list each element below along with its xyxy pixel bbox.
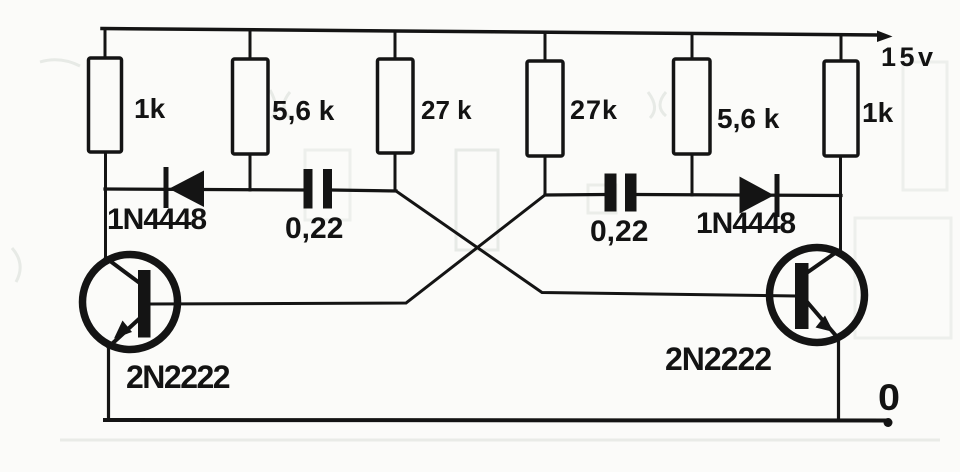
- svg-text:0,22: 0,22: [590, 215, 648, 248]
- svg-text:27k: 27k: [570, 95, 618, 125]
- svg-text:1N4448: 1N4448: [107, 203, 206, 236]
- svg-text:5,6 k: 5,6 k: [272, 95, 335, 126]
- svg-text:0: 0: [878, 377, 900, 418]
- svg-text:0,22: 0,22: [285, 212, 343, 245]
- svg-text:27 k: 27 k: [421, 95, 472, 125]
- svg-text:5,6 k: 5,6 k: [717, 103, 780, 134]
- svg-text:1k: 1k: [134, 93, 166, 124]
- svg-text:1k: 1k: [862, 97, 894, 128]
- svg-text:2N2222: 2N2222: [126, 359, 230, 395]
- svg-text:2N2222: 2N2222: [665, 341, 771, 377]
- svg-text:15v: 15v: [881, 42, 937, 72]
- svg-text:1N4448: 1N4448: [696, 207, 795, 240]
